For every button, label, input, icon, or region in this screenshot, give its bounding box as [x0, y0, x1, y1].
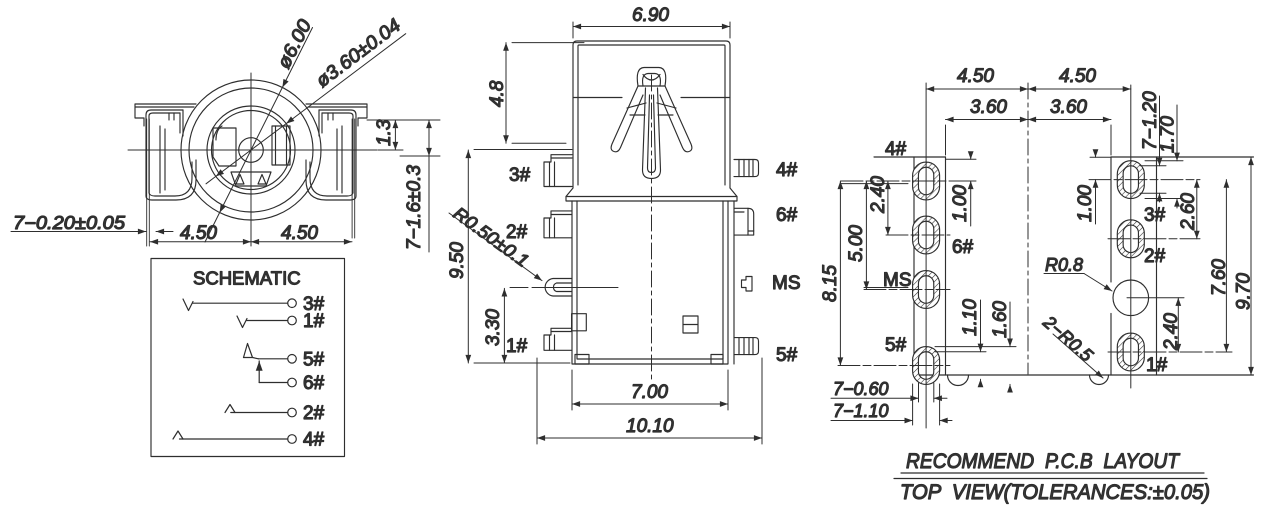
svg-text:1#: 1# [506, 336, 528, 357]
svg-text:R0.8: R0.8 [1045, 255, 1083, 275]
svg-text:7−0.20±0.05: 7−0.20±0.05 [13, 213, 126, 233]
svg-text:2.40: 2.40 [868, 176, 889, 214]
svg-text:MS: MS [772, 273, 801, 294]
svg-text:1.00: 1.00 [1075, 185, 1096, 222]
svg-text:9.70: 9.70 [1234, 273, 1255, 310]
svg-text:7.00: 7.00 [631, 382, 668, 403]
svg-text:6#: 6# [776, 205, 798, 226]
svg-text:4#: 4# [776, 160, 798, 181]
svg-text:2#: 2# [303, 403, 325, 424]
svg-text:1.70: 1.70 [1158, 116, 1179, 153]
svg-text:SCHEMATIC: SCHEMATIC [193, 268, 301, 289]
svg-text:6.90: 6.90 [632, 5, 669, 26]
svg-text:2.40: 2.40 [1161, 313, 1182, 351]
svg-text:10.10: 10.10 [626, 416, 674, 437]
svg-text:3#: 3# [509, 165, 531, 186]
svg-text:5#: 5# [776, 345, 798, 366]
svg-text:6#: 6# [952, 237, 974, 258]
svg-text:5#: 5# [885, 335, 907, 356]
svg-text:4.50: 4.50 [957, 66, 994, 87]
svg-text:7−0.60: 7−0.60 [833, 379, 889, 399]
svg-text:3.30: 3.30 [483, 309, 504, 346]
svg-text:3.60: 3.60 [1050, 97, 1087, 118]
svg-text:2#: 2# [1144, 246, 1166, 267]
svg-text:1#: 1# [1146, 355, 1168, 376]
svg-text:1.60: 1.60 [990, 301, 1011, 338]
svg-text:7.60: 7.60 [1209, 259, 1230, 296]
svg-text:4.50: 4.50 [1059, 66, 1096, 87]
svg-text:1.10: 1.10 [960, 299, 981, 336]
svg-text:7−1.10: 7−1.10 [833, 401, 889, 421]
svg-text:4#: 4# [885, 139, 907, 160]
svg-text:2#: 2# [506, 222, 528, 243]
svg-text:2−R0.5: 2−R0.5 [1039, 311, 1098, 366]
svg-text:4.50: 4.50 [180, 223, 217, 244]
svg-text:ø3.60±0.04: ø3.60±0.04 [312, 15, 405, 92]
svg-text:1#: 1# [303, 311, 325, 332]
svg-text:5.00: 5.00 [846, 225, 867, 262]
svg-text:TOP VIEW(TOLERANCES:±0.05): TOP VIEW(TOLERANCES:±0.05) [900, 481, 1210, 504]
svg-text:4#: 4# [303, 430, 325, 451]
svg-text:1.00: 1.00 [950, 185, 971, 222]
svg-text:4.8: 4.8 [487, 80, 508, 107]
svg-text:7−1.6±0.3: 7−1.6±0.3 [404, 165, 425, 250]
svg-text:4.50: 4.50 [281, 223, 318, 244]
svg-text:5#: 5# [303, 350, 325, 371]
svg-text:ø6.00: ø6.00 [274, 16, 317, 72]
svg-text:9.50: 9.50 [447, 242, 468, 279]
svg-text:1.3: 1.3 [374, 119, 395, 146]
svg-text:3#: 3# [1144, 205, 1166, 226]
svg-text:6#: 6# [303, 373, 325, 394]
svg-text:8.15: 8.15 [820, 265, 841, 302]
svg-text:2.60: 2.60 [1178, 193, 1199, 231]
svg-text:MS: MS [883, 270, 912, 291]
svg-text:3.60: 3.60 [970, 97, 1007, 118]
svg-text:RECOMMEND P.C.B LAYOUT: RECOMMEND P.C.B LAYOUT [906, 450, 1181, 473]
